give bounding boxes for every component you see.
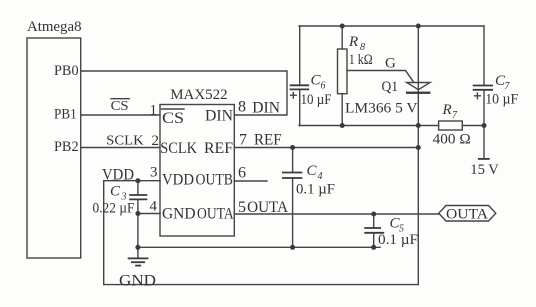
svg-text:6: 6 (321, 81, 326, 92)
svg-text:400 Ω: 400 Ω (433, 132, 471, 148)
svg-text:OUTB: OUTB (196, 172, 234, 189)
svg-text:DIN: DIN (205, 108, 233, 125)
svg-text:G: G (385, 56, 396, 72)
svg-text:VDD: VDD (162, 172, 194, 189)
wire analog ground rail (138, 246, 380, 248)
plus sign of C6 (291, 94, 297, 96)
resistor R8 (341, 26, 343, 49)
junction dot REF/vertical (416, 145, 421, 150)
wire gate from R8 tap to Q1 (347, 71, 414, 83)
svg-text:0.1 µF: 0.1 µF (378, 232, 418, 248)
MCU Atmega8 box (27, 38, 81, 258)
svg-text:1: 1 (150, 103, 158, 119)
wire PB2 to SCLK pin2 (81, 147, 160, 149)
DAC MAX522 box (160, 105, 234, 237)
svg-text:CS: CS (111, 99, 129, 114)
capacitor C6 polarized (299, 26, 301, 85)
svg-text:Atmega8: Atmega8 (27, 19, 82, 35)
junction dot VDD/C3 (135, 178, 140, 183)
wire reference node rail (299, 125, 439, 127)
svg-text:6: 6 (238, 165, 246, 182)
svg-text:10 µF: 10 µF (301, 92, 332, 108)
svg-text:0.22 µF: 0.22 µF (93, 201, 135, 217)
svg-text:REF: REF (204, 140, 233, 157)
svg-text:15 V: 15 V (470, 162, 499, 178)
svg-text:DIN: DIN (252, 99, 280, 116)
junction dot R8 top (340, 24, 345, 29)
junction dot pin4/C3 (135, 211, 140, 216)
resistor R7 (439, 121, 463, 130)
svg-text:PB2: PB2 (54, 139, 79, 155)
svg-text:10 µF: 10 µF (485, 92, 518, 108)
svg-text:4: 4 (318, 171, 323, 182)
svg-text:8: 8 (238, 99, 246, 116)
junction dot REF/C4 (290, 145, 295, 150)
svg-text:OUTA: OUTA (446, 207, 488, 223)
svg-text:R: R (348, 34, 358, 50)
reference Q1 vertical wire (417, 26, 419, 126)
junction dot R8 bottom (340, 123, 345, 128)
svg-text:Q1: Q1 (382, 79, 399, 95)
wire PB0 to DIN pin8 (81, 71, 287, 115)
reference Q1 cathode bar (406, 92, 430, 94)
junction dot Q1 bottom (416, 123, 421, 128)
wire PB1 to CS pin1 (81, 114, 160, 116)
wire pin6 OUTB stub (234, 180, 267, 182)
junction dot C3/ground rail (135, 245, 140, 250)
svg-text:GND: GND (119, 273, 156, 290)
junction dot OUTA/C5 (371, 212, 376, 217)
svg-text:LM366 5 V: LM366 5 V (345, 100, 418, 116)
svg-text:0.1 µF: 0.1 µF (296, 182, 335, 198)
svg-text:SCLK: SCLK (106, 133, 144, 148)
supply terminal 15V bar (478, 158, 490, 160)
svg-text:PB1: PB1 (54, 106, 77, 122)
svg-text:CS: CS (162, 110, 184, 127)
svg-text:4: 4 (150, 199, 158, 215)
plus sign of C7 (475, 95, 481, 97)
capacitor C4 (292, 148, 294, 173)
svg-text:REF: REF (254, 132, 282, 149)
junction dot Q1 top (416, 24, 421, 29)
ground symbol (137, 247, 139, 258)
svg-text:PB0: PB0 (54, 63, 79, 79)
reference Q1 triangle (407, 83, 430, 90)
svg-text:3: 3 (150, 165, 158, 181)
svg-text:SCLK: SCLK (160, 140, 197, 157)
svg-text:C: C (307, 163, 318, 179)
svg-text:7: 7 (239, 132, 247, 149)
wire REF pin7 to reference node (234, 147, 418, 149)
junction dot R7/C7 (482, 123, 487, 128)
junction dot C5/ground rail (371, 245, 376, 250)
svg-text:1 kΩ: 1 kΩ (349, 52, 373, 68)
junction dot C4/ground rail (290, 245, 295, 250)
wire pin4 GND to C3 node (138, 213, 160, 215)
svg-text:C: C (110, 184, 121, 200)
svg-text:OUTA: OUTA (197, 206, 234, 223)
wire VDD run: pin3 left, down, along bottom, up to REF node (104, 126, 419, 285)
svg-text:2: 2 (152, 133, 160, 149)
svg-text:GND: GND (162, 206, 196, 223)
svg-text:R: R (442, 102, 452, 118)
wire top supply (299, 25, 484, 27)
svg-text:MAX522: MAX522 (170, 87, 228, 103)
port OUTA hexagon (439, 206, 496, 222)
capacitor C7 polarized (483, 26, 485, 86)
capacitor C5 (373, 214, 375, 228)
wire OUTA pin5 to port (234, 213, 438, 215)
capacitor C3 (137, 181, 139, 195)
